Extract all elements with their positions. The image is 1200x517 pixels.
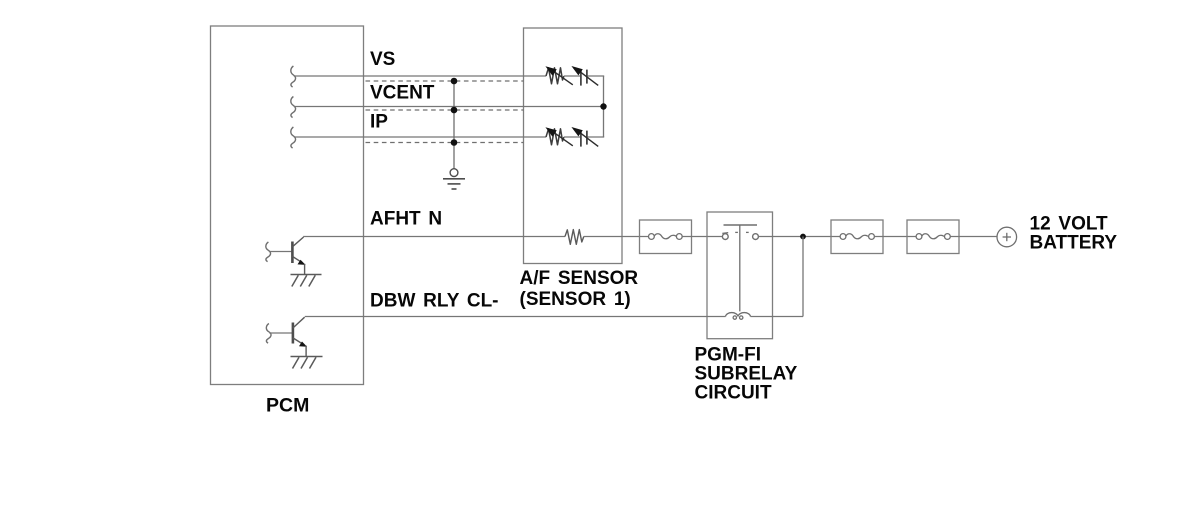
fuse 3 element xyxy=(922,234,944,239)
sensor cell 2 electrode arrow xyxy=(571,127,598,146)
wire AFHT N from Q1 to heater xyxy=(303,236,565,238)
svg-text:SUBRELAY: SUBRELAY xyxy=(695,364,798,385)
svg-text:VS: VS xyxy=(370,49,395,70)
svg-text:DBW RLY CL-: DBW RLY CL- xyxy=(370,291,499,312)
shield ground vertical wire xyxy=(453,81,455,169)
wire cell2 mid xyxy=(564,136,580,138)
wire coil to riser xyxy=(751,316,804,318)
PCM box xyxy=(211,26,364,385)
heater resistor in sensor xyxy=(565,230,584,245)
shield dashed line for VS xyxy=(366,80,524,82)
fuse 2 element xyxy=(846,234,868,239)
wire cell2 right xyxy=(588,136,605,138)
junction dot shield VS xyxy=(451,78,458,85)
relay armature link xyxy=(739,225,741,311)
svg-text:VCENT: VCENT xyxy=(370,83,435,104)
wire IP xyxy=(294,136,546,138)
transistor Q1 collector xyxy=(292,237,303,247)
wire fuse 3 to battery xyxy=(950,236,997,238)
svg-text:BATTERY: BATTERY xyxy=(1030,233,1118,254)
fuse box 1 xyxy=(640,220,692,254)
relay contact gap dash right xyxy=(746,231,749,233)
sensor internal bus wire xyxy=(603,76,605,137)
wire relay to junction xyxy=(758,236,840,238)
battery terminal circle xyxy=(997,227,1017,247)
wire VCENT xyxy=(294,106,604,108)
shield dashed line for IP xyxy=(366,142,524,144)
fuse 1 right terminal xyxy=(676,234,682,240)
relay contact left terminal xyxy=(722,234,728,240)
transistor Q2 ground xyxy=(291,357,323,369)
relay contact gap dash left xyxy=(735,231,738,233)
connector break on IP wire xyxy=(291,127,296,148)
wire DBW RLY CL- from Q2 to coil xyxy=(305,316,726,318)
junction dot shield VCENT xyxy=(451,107,458,114)
wire heater to fuse 1 xyxy=(584,236,649,238)
svg-text:PCM: PCM xyxy=(266,395,309,417)
fuse box 3 xyxy=(907,220,959,254)
fuse box 2 xyxy=(831,220,883,254)
transistor Q2 base bar xyxy=(292,323,295,344)
fuse 3 left terminal xyxy=(916,234,922,240)
svg-text:(SENSOR 1): (SENSOR 1) xyxy=(520,289,631,310)
connector break on VS wire xyxy=(291,66,296,87)
junction dot shield IP xyxy=(451,139,458,146)
fuse 1 left terminal xyxy=(649,234,655,240)
sensor cell 1 resistor xyxy=(546,68,564,84)
transistor Q2 base wire xyxy=(269,332,293,334)
sensor cell 2 electrode bars xyxy=(581,131,587,147)
relay contact left tick xyxy=(722,232,728,235)
PGM-FI subrelay box xyxy=(707,212,773,339)
wire fuse 1 to relay xyxy=(682,236,722,238)
sensor cell 1 resistor arrow xyxy=(545,66,572,85)
sensor cell 1 electrode arrow xyxy=(571,66,598,85)
sensor cell 1 electrode bars xyxy=(581,70,587,86)
fuse 2 left terminal xyxy=(840,234,846,240)
fuse 3 right terminal xyxy=(945,234,951,240)
transistor Q1 ground xyxy=(291,275,322,287)
svg-text:IP: IP xyxy=(370,112,388,133)
svg-text:AFHT N: AFHT N xyxy=(370,209,442,230)
sensor cell 2 resistor xyxy=(546,129,564,145)
transistor Q2 collector xyxy=(293,317,305,328)
transistor Q1 base wire xyxy=(269,251,293,253)
battery plus sign xyxy=(1003,233,1011,241)
transistor Q2 emitter lead xyxy=(305,346,307,357)
wire fuse 2 to fuse 3 xyxy=(874,236,916,238)
transistor Q1 emitter lead xyxy=(304,264,306,275)
relay coil xyxy=(726,313,751,320)
transistor Q1 base bar xyxy=(291,242,294,264)
junction dot battery line xyxy=(800,234,806,240)
svg-text:CIRCUIT: CIRCUIT xyxy=(695,383,772,404)
fuse 1 element xyxy=(654,234,676,239)
transistor Q1 base break xyxy=(266,242,271,262)
transistor Q1 emitter xyxy=(292,256,305,265)
transistor Q2 emitter xyxy=(293,338,307,347)
ground G101 circle xyxy=(450,169,458,177)
connector break on VCENT wire xyxy=(291,97,296,118)
wire VS xyxy=(294,75,546,77)
sensor cell 2 resistor arrow xyxy=(545,127,572,146)
wire cell1 mid xyxy=(564,75,580,77)
shield dashed line for VCENT xyxy=(366,109,524,111)
svg-text:A/F SENSOR: A/F SENSOR xyxy=(520,268,639,289)
svg-text:12 VOLT: 12 VOLT xyxy=(1030,214,1109,235)
junction dot VCENT bus xyxy=(600,103,606,109)
wire cell1 right xyxy=(588,75,605,77)
ground G101 bars xyxy=(443,179,465,189)
svg-text:PGM-FI: PGM-FI xyxy=(695,345,762,366)
relay armature bar xyxy=(724,224,758,226)
transistor Q2 base break xyxy=(266,324,271,344)
relay contact right terminal xyxy=(753,234,759,240)
fuse 2 right terminal xyxy=(869,234,875,240)
A/F sensor box xyxy=(524,28,623,264)
wire junction riser xyxy=(802,237,804,317)
